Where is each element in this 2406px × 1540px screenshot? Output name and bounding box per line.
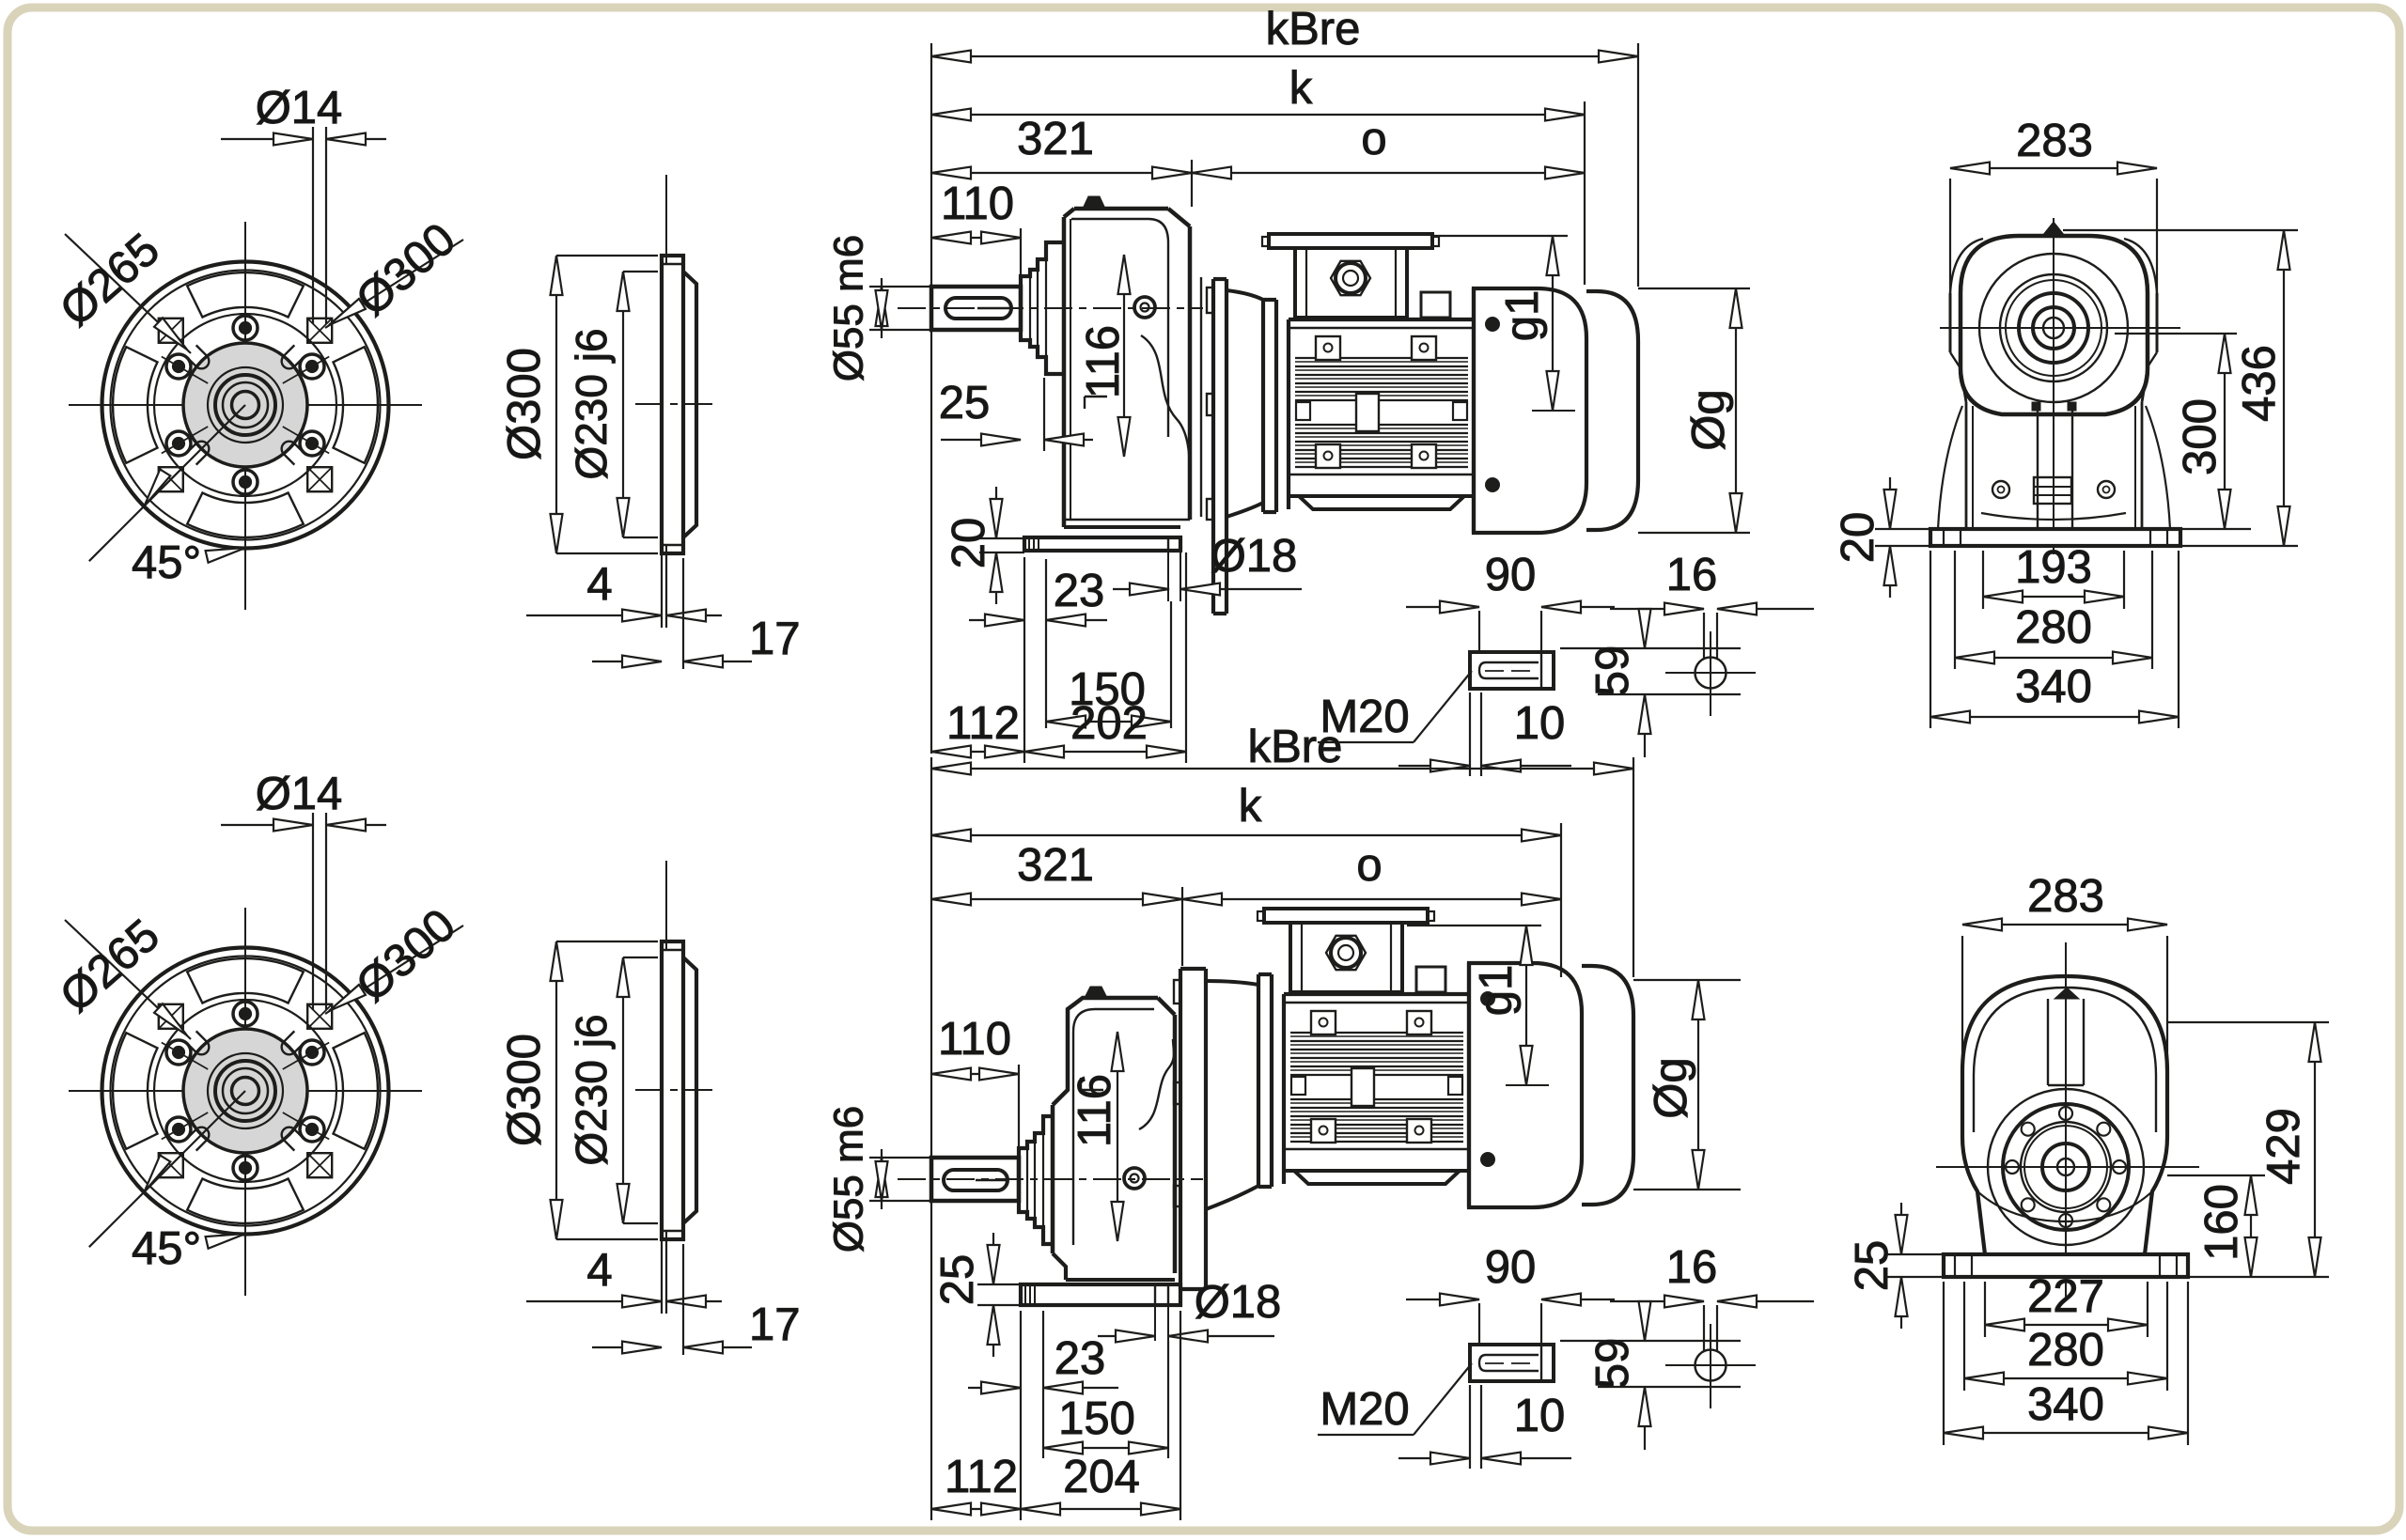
svg-text:Ø18: Ø18 — [1211, 531, 1298, 582]
svg-text:280: 280 — [2015, 602, 2092, 653]
svg-text:110: 110 — [941, 179, 1014, 229]
svg-text:23: 23 — [1054, 566, 1105, 616]
svg-text:59: 59 — [1587, 646, 1638, 697]
svg-text:110: 110 — [938, 1014, 1011, 1065]
svg-text:Ø18: Ø18 — [1195, 1277, 1282, 1328]
svg-text:280: 280 — [2027, 1325, 2104, 1376]
svg-text:45°: 45° — [132, 537, 201, 588]
svg-text:321: 321 — [1017, 114, 1094, 164]
svg-text:321: 321 — [1017, 840, 1094, 891]
svg-text:160: 160 — [2196, 1184, 2247, 1261]
svg-text:4: 4 — [586, 559, 612, 610]
svg-text:o: o — [1356, 840, 1382, 891]
svg-text:Ø55 m6: Ø55 m6 — [826, 235, 872, 382]
svg-text:202: 202 — [1070, 698, 1148, 749]
svg-text:g1: g1 — [1471, 965, 1522, 1017]
svg-text:Øg: Øg — [1683, 389, 1734, 450]
svg-text:193: 193 — [2015, 542, 2092, 593]
svg-text:283: 283 — [2016, 116, 2093, 166]
svg-text:340: 340 — [2015, 661, 2092, 712]
svg-text:20: 20 — [1833, 512, 1883, 564]
svg-text:kBre: kBre — [1248, 722, 1343, 772]
svg-text:227: 227 — [2027, 1271, 2104, 1322]
svg-text:g1: g1 — [1497, 290, 1548, 342]
svg-text:436: 436 — [2234, 345, 2285, 422]
svg-text:kBre: kBre — [1266, 4, 1361, 54]
svg-text:112: 112 — [946, 698, 1020, 749]
svg-text:17: 17 — [749, 614, 801, 664]
svg-text:112: 112 — [945, 1452, 1018, 1502]
svg-text:300: 300 — [2175, 398, 2226, 475]
svg-text:116: 116 — [1070, 1074, 1120, 1147]
svg-text:10: 10 — [1514, 698, 1566, 749]
svg-text:Ø55 m6: Ø55 m6 — [826, 1106, 872, 1253]
svg-text:20: 20 — [944, 518, 994, 569]
svg-text:16: 16 — [1666, 550, 1718, 600]
svg-text:90: 90 — [1485, 550, 1537, 600]
svg-text:25: 25 — [932, 1254, 983, 1306]
svg-text:Ø14: Ø14 — [256, 83, 343, 133]
svg-text:Øg: Øg — [1646, 1057, 1696, 1118]
svg-text:116: 116 — [1078, 325, 1129, 398]
svg-text:429: 429 — [2258, 1108, 2309, 1185]
svg-text:25: 25 — [939, 378, 991, 428]
svg-text:204: 204 — [1063, 1452, 1140, 1502]
svg-text:o: o — [1361, 114, 1386, 164]
svg-text:150: 150 — [1058, 1393, 1135, 1444]
svg-text:340: 340 — [2027, 1379, 2104, 1430]
svg-text:283: 283 — [2027, 871, 2104, 922]
svg-text:k: k — [1289, 63, 1313, 114]
svg-text:25: 25 — [1847, 1240, 1898, 1292]
svg-text:k: k — [1239, 781, 1262, 832]
svg-text:23: 23 — [1055, 1333, 1106, 1384]
svg-text:Ø230 j6: Ø230 j6 — [567, 328, 616, 479]
svg-text:Ø300: Ø300 — [499, 348, 550, 460]
